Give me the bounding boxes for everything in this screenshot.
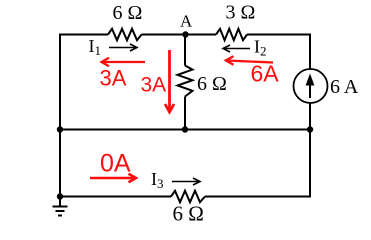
svg-text:6A: 6A <box>251 61 280 87</box>
junction dot ground node <box>57 193 63 199</box>
svg-text:6 A: 6 A <box>330 76 359 98</box>
svg-text:3 Ω: 3 Ω <box>226 2 256 24</box>
red annotation arrow 0A (right) <box>90 174 136 182</box>
wire middle horizontal rail <box>60 129 310 131</box>
wire top-right horizontal <box>247 34 311 36</box>
wire right vertical upper <box>309 34 311 70</box>
red annotation arrow 3A (left, top-left mesh) <box>102 58 146 67</box>
wire left vertical <box>59 34 61 197</box>
resistor 6Ω middle vertical zigzag <box>178 66 193 97</box>
resistor 3Ω top-right zigzag <box>216 29 247 40</box>
arrow I3 (right) <box>172 178 200 185</box>
junction dot center-middle <box>182 126 188 132</box>
svg-text:6 Ω: 6 Ω <box>173 202 204 226</box>
resistor 6Ω top-left zigzag <box>108 29 142 40</box>
wire from node A down to middle resistor <box>184 35 186 66</box>
junction dot right-middle <box>307 126 313 132</box>
svg-text:0A: 0A <box>100 150 131 178</box>
arrow I1 (right) <box>109 44 137 51</box>
red annotation arrow 3A (down, middle branch) <box>165 50 174 112</box>
svg-text:3A: 3A <box>100 66 127 91</box>
wire from middle resistor down to middle rail <box>184 97 186 130</box>
arrow I2 (left) <box>223 45 250 52</box>
svg-text:3A: 3A <box>141 73 167 96</box>
resistor 6Ω bottom zigzag <box>171 191 205 202</box>
current source arrow (up) <box>306 74 315 99</box>
svg-text:A: A <box>180 12 193 31</box>
node A junction dot <box>182 31 188 37</box>
wire bottom-right horizontal <box>205 196 311 198</box>
wire between top resistors <box>142 34 217 36</box>
wire bottom-left horizontal <box>60 196 171 198</box>
red annotation arrow 6A (left) <box>226 56 273 65</box>
wire right vertical lower <box>309 103 311 198</box>
svg-text:6 Ω: 6 Ω <box>197 73 227 95</box>
current source 6A circle <box>294 69 328 103</box>
wire top-left horizontal <box>60 34 108 36</box>
junction dot left-middle <box>57 126 63 132</box>
ground symbol <box>53 197 68 216</box>
svg-text:6 Ω: 6 Ω <box>113 2 143 24</box>
